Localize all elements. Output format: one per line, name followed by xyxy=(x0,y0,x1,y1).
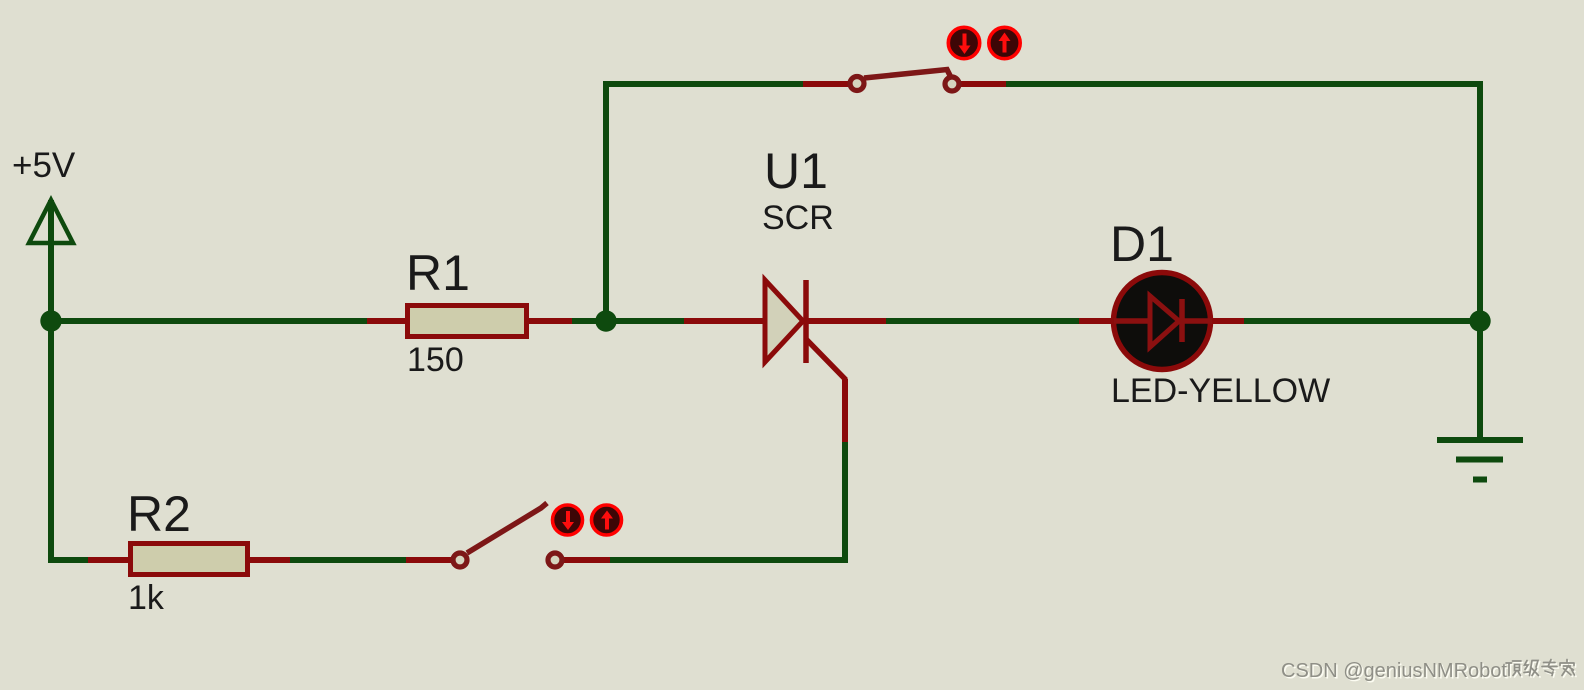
switch (bottom, open) xyxy=(453,503,562,567)
svg-text:R1: R1 xyxy=(406,245,470,301)
op-amp U1 (SCR thyristor symbol) xyxy=(765,280,846,380)
label +5V xyxy=(12,146,76,185)
pin: bottom switch right lead xyxy=(555,557,610,563)
power +5V symbol xyxy=(29,200,73,243)
pin: R2 right lead xyxy=(248,557,290,563)
top switch up-button xyxy=(989,27,1020,58)
wire: left vertical from +5V arrow down to bottom rail xyxy=(48,200,54,563)
LED D1 xyxy=(1114,273,1213,370)
value 150 xyxy=(407,341,464,379)
pin: bottom switch left lead xyxy=(406,557,452,563)
wire: right vertical from top rail down to ground xyxy=(1477,84,1483,440)
pin: R1 right lead xyxy=(528,318,572,324)
svg-text:D1: D1 xyxy=(1110,216,1174,272)
svg-text:1k: 1k xyxy=(128,579,165,617)
pin: D1 anode lead xyxy=(1079,318,1114,324)
svg-text:R2: R2 xyxy=(127,486,191,542)
resistor R2 xyxy=(131,544,248,575)
node C: junction at (1480,321) xyxy=(1469,310,1490,331)
bottom switch down-button xyxy=(553,505,583,535)
wire: top horizontal rail y=84 right of switch xyxy=(950,81,1483,87)
wire: bottom-right horizontal rail from switch to gate xyxy=(555,557,848,563)
pin: U1 anode lead xyxy=(684,318,766,324)
label U1 xyxy=(764,143,828,199)
pin: top switch left lead xyxy=(803,81,850,87)
label LED-YELLOW xyxy=(1111,372,1330,410)
pin: top switch right lead xyxy=(960,81,1006,87)
wire: top horizontal rail y=84 left of switch xyxy=(603,81,855,87)
switch (top, open) xyxy=(850,70,959,92)
pin: U1 gate lead (red part of riser) xyxy=(842,379,848,442)
label D1 xyxy=(1110,216,1174,272)
value 1k xyxy=(128,579,165,617)
watermark CSDN @geniusNMRobot (embossed) xyxy=(1281,660,1509,684)
wire: bottom-left horizontal rail y=560 xyxy=(48,557,460,563)
label R1 xyxy=(406,245,470,301)
resistor R1 xyxy=(408,306,527,337)
svg-text:LED-YELLOW: LED-YELLOW xyxy=(1111,372,1330,410)
pin: D1 cathode lead xyxy=(1210,318,1244,324)
svg-text:U1: U1 xyxy=(764,143,828,199)
label SCR xyxy=(762,199,834,237)
wire: gate vertical riser x=845 xyxy=(842,440,848,563)
svg-text:+5V: +5V xyxy=(12,146,76,185)
top switch down-button xyxy=(948,27,979,58)
wire: mid vertical from node B up to top rail xyxy=(603,84,609,321)
bottom switch up-button xyxy=(592,505,622,535)
node A: junction at (51,321) xyxy=(40,310,61,331)
pin: R1 left lead xyxy=(367,318,406,324)
node B: junction at (606,321) xyxy=(595,310,616,331)
wire: main horizontal rail y=321 xyxy=(48,318,1483,324)
label R2 xyxy=(127,486,191,542)
svg-text:150: 150 xyxy=(407,341,464,379)
svg-text:SCR: SCR xyxy=(762,199,834,237)
ground xyxy=(1437,440,1523,480)
pin: R2 left lead xyxy=(88,557,130,563)
svg-text:CSDN @geniusNMRobot: CSDN @geniusNMRobot xyxy=(1281,660,1507,682)
pin: U1 cathode lead xyxy=(805,318,886,324)
